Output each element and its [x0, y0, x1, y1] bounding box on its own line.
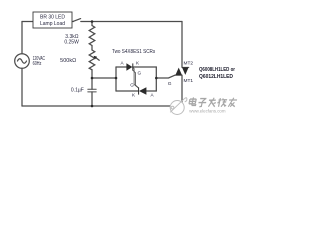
svg-text:G: G: [130, 82, 134, 87]
svg-text:G: G: [168, 81, 172, 87]
triac bottom bar: [175, 74, 182, 76]
switch SW1 stub: [72, 21, 73, 23]
svg-text:G: G: [138, 70, 142, 75]
wire loop right to triac gate: [156, 75, 175, 78]
wire switch to junction: [81, 21, 92, 23]
SCR loop right vertical: [155, 67, 157, 91]
capacitor C1 lead bottom: [91, 92, 93, 106]
wire pot to node: [91, 70, 93, 78]
resistor R1 3.3k lead top: [91, 22, 93, 26]
resistor R1 zigzag: [89, 26, 95, 46]
triac main vertical: [181, 22, 183, 107]
wire top to triac: [92, 21, 182, 23]
junction dot pot bottom node: [91, 77, 94, 80]
triac top bar: [182, 66, 189, 68]
junction dot loop right: [155, 77, 158, 80]
SCR Q2 cathode bar: [138, 87, 139, 94]
svg-text:Q6012LH1LED: Q6012LH1LED: [199, 74, 233, 80]
SCR Q2 triangle: [139, 87, 146, 95]
junction dot loop left: [115, 77, 118, 80]
potentiometer R2 500k zigzag: [89, 50, 95, 70]
SCR loop top edge: [116, 66, 156, 68]
watermark chinese text dianzifashaoyou: [188, 97, 237, 106]
svg-text:MT1: MT1: [184, 78, 194, 84]
junction dot switch node: [91, 20, 94, 23]
svg-text:www.elecfans.com: www.elecfans.com: [189, 109, 225, 114]
potentiometer wiper arrowhead: [94, 56, 98, 60]
wire top left horizontal: [22, 21, 33, 23]
svg-text:0.1µF: 0.1µF: [71, 87, 84, 93]
watermark pencil diagonal: [170, 99, 184, 113]
capacitor C1 plates: [88, 89, 96, 92]
SCR Q1 gate lead: [133, 70, 139, 87]
watermark small ring: [171, 106, 174, 109]
wire R1 to pot: [91, 46, 93, 51]
triac left triangle pointing up: [175, 68, 182, 76]
svg-text:Two S4X8ES1 SCRs: Two S4X8ES1 SCRs: [112, 49, 156, 55]
svg-text:60Hz: 60Hz: [33, 61, 42, 67]
SCR Q1 cathode bar: [132, 63, 133, 70]
svg-text:BR 30 LED: BR 30 LED: [40, 14, 65, 20]
svg-text:MT2: MT2: [184, 61, 194, 67]
svg-text:Lamp Load: Lamp Load: [40, 21, 65, 27]
wire node to SCR loop: [92, 77, 116, 79]
AC source sine wave: [18, 59, 27, 63]
capacitor C1 lead top: [91, 78, 93, 89]
AC source V1 circle: [15, 54, 30, 69]
triac right triangle pointing down: [182, 67, 189, 75]
wire left vertical upper: [21, 22, 23, 54]
SCR loop bottom edge: [116, 90, 156, 92]
wire left vertical lower: [21, 68, 23, 106]
watermark pencil hook: [184, 98, 187, 102]
svg-text:500kΩ: 500kΩ: [60, 58, 76, 64]
svg-text:Q6008LH1LED or: Q6008LH1LED or: [199, 67, 235, 73]
SCR Q1 triangle: [126, 63, 132, 71]
wire bottom horizontal: [22, 105, 182, 107]
potentiometer wiper arrow line: [95, 57, 99, 60]
svg-text:0.25W: 0.25W: [64, 40, 79, 46]
SCR loop left vertical: [115, 67, 117, 91]
junction dot cap bottom: [91, 105, 94, 108]
watermark logo circle: [170, 98, 187, 115]
switch SW1 blade: [73, 19, 80, 22]
lamp load box: [33, 12, 72, 28]
SCR Q2 gate lead: [133, 68, 138, 88]
